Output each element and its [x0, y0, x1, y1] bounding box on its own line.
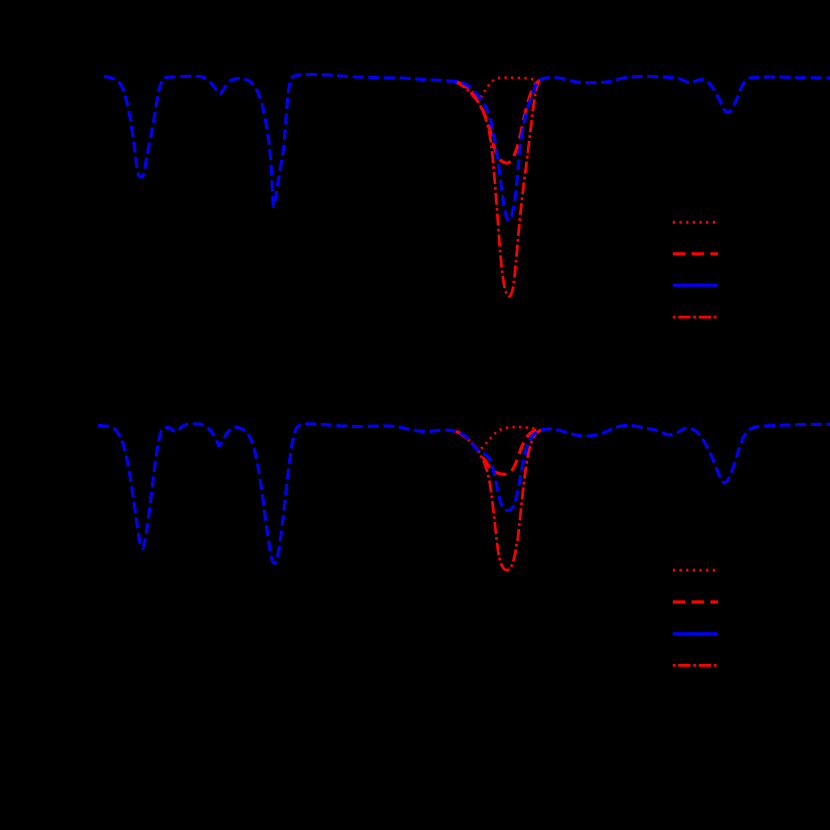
bottom legend: red dotted sample line — [673, 569, 716, 572]
top plot: blue dashed spectrum curve — [104, 74, 830, 220]
bottom plot: red dash-dot model curve — [455, 431, 541, 571]
bottom legend: red dashed sample line — [673, 600, 718, 603]
top legend: blue solid sample line — [673, 284, 718, 287]
bottom legend: blue solid sample line — [673, 632, 718, 635]
bottom legend: red dash-dot sample line — [673, 664, 718, 667]
top plot: red dash-dot model curve — [454, 81, 541, 297]
bottom plot: red dotted model curve — [456, 427, 541, 450]
bottom plot: blue dashed spectrum curve — [98, 424, 830, 563]
bottom plot: red dashed model curve — [457, 430, 541, 475]
top legend: red dash-dot sample line — [673, 316, 718, 319]
top legend: red dotted sample line — [673, 221, 716, 224]
top plot: red dotted model curve — [455, 78, 540, 100]
top plot: red dashed model curve — [456, 81, 540, 163]
top legend: red dashed sample line — [673, 252, 718, 255]
